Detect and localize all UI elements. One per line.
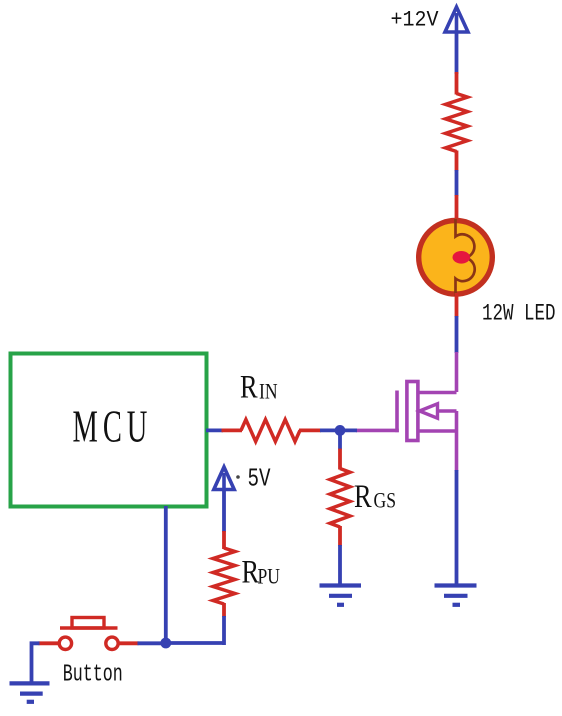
wire button left lead (red) (39, 641, 60, 645)
svg-text:5V: 5V (248, 465, 272, 494)
label R_PU (242, 554, 280, 590)
MCU box U1 (11, 354, 207, 507)
svg-text:+12V: +12V (391, 8, 440, 33)
button bar (60, 626, 118, 629)
node button junction (160, 638, 171, 649)
resistor R_IN (241, 420, 300, 442)
wire lamp lead top (red) (455, 195, 459, 222)
svg-text:12W LED: 12W LED (482, 301, 556, 327)
body arrow (420, 404, 438, 418)
wire to junction (blue) (138, 641, 167, 645)
button contact right (106, 637, 118, 649)
wire R_GS lead top (red) (338, 449, 342, 470)
transistor Q1 N-MOSFET (356, 352, 457, 471)
svg-text:Button: Button (63, 662, 123, 689)
wire R_IN lead right (red) (299, 428, 321, 432)
wire junction to R_GS (blue) (338, 430, 342, 449)
wire R_GS to ground (blue) (338, 545, 342, 585)
svg-text:R: R (242, 554, 260, 590)
svg-text:PU: PU (258, 565, 280, 589)
pushbutton S1 (59, 618, 118, 650)
wire R_GS lead bottom (red) (338, 526, 342, 546)
label R_GS (354, 478, 396, 514)
resistor (current limiting, top) (446, 94, 468, 152)
svg-text:GS: GS (374, 489, 396, 513)
wire lamp to MOSFET drain (blue) (455, 316, 459, 353)
wire R_PU lead top (red) (222, 531, 226, 549)
dot mark near 5V (236, 475, 240, 479)
power arrow +12V (445, 7, 468, 33)
wire R_PU lead bottom (red) (222, 603, 226, 617)
drain horizontal (419, 391, 457, 395)
wire lamp lead bottom (red) (455, 293, 459, 317)
wire junction left (blue) (320, 428, 357, 432)
gate wire from junction (356, 429, 399, 433)
wire +12V to resistor (blue) (455, 32, 459, 74)
wire MOSFET source to ground (blue) (455, 470, 459, 585)
ground (R_GS) (320, 586, 362, 605)
wire MCU bottom to button junction (blue) (164, 506, 168, 643)
svg-text:R: R (354, 478, 372, 514)
wire 5V arrow to R_PU (blue) (222, 490, 226, 533)
wire resistor to lamp (blue) (455, 170, 459, 196)
button contact left (59, 637, 71, 649)
source horizontal (418, 429, 457, 433)
wire button to ground corner (blue) (32, 643, 40, 683)
wire button to junction (red) (118, 641, 139, 645)
channel rectangle (407, 382, 418, 441)
source lead vertical (purple) (455, 411, 459, 471)
wire R_PU to bottom rail (blue) (222, 616, 226, 645)
node gate junction (335, 425, 346, 436)
gate bar (395, 391, 399, 433)
lamp 12W LED (419, 219, 493, 296)
svg-text:R: R (240, 369, 258, 405)
resistor R_GS (330, 469, 350, 528)
wire bottom rail junction to R_PU (blue) (166, 641, 224, 645)
label R_IN (240, 369, 278, 405)
svg-text:IN: IN (259, 380, 278, 404)
button cap (72, 618, 104, 629)
power arrow 5V (214, 467, 234, 490)
drain lead vertical (purple) (455, 352, 459, 392)
wire R_IN lead left (red) (222, 428, 243, 432)
ground (button) (10, 683, 50, 701)
svg-text:MCU: MCU (73, 402, 153, 452)
wire resistor lead top (red) (455, 72, 459, 95)
wire MCU to R_IN (blue) (206, 428, 223, 432)
wire resistor lead bottom (red) (455, 151, 459, 172)
resistor R_PU (213, 548, 235, 604)
ground (MOSFET source) (435, 586, 477, 605)
